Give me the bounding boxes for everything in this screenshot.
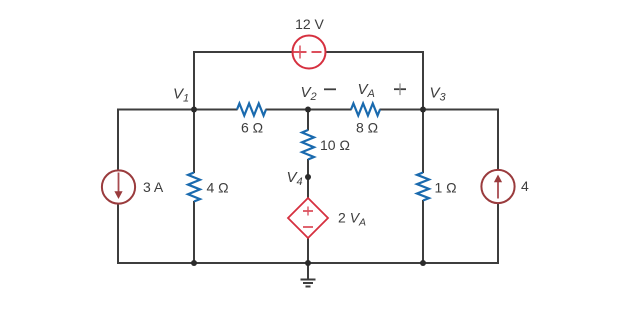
svg-text:4: 4 bbox=[521, 178, 529, 194]
node V3 dot bbox=[420, 107, 426, 113]
wire: center column 10-ohm to diamond bbox=[307, 159, 309, 199]
wire: V3 column top segment bbox=[422, 51, 424, 110]
svg-text:3 A: 3 A bbox=[143, 179, 164, 195]
wire: main row left (left rail corner to 6-ohm) bbox=[118, 109, 238, 111]
svg-text:6 Ω: 6 Ω bbox=[241, 120, 263, 136]
node: bottom rail ground junction bbox=[305, 260, 311, 266]
node V1 dot bbox=[191, 107, 197, 113]
resistor 8 ohm bbox=[351, 104, 380, 116]
svg-text:V3: V3 bbox=[430, 85, 447, 104]
resistor 6 ohm bbox=[237, 104, 266, 116]
wire: top rail from V1 to V3 bbox=[194, 51, 423, 53]
wire: V3 column lower segment bbox=[422, 200, 424, 263]
wire: left rail vertical bbox=[117, 109, 119, 265]
wire: V1 column top segment bbox=[193, 51, 195, 110]
resistor 1 ohm bbox=[417, 173, 429, 201]
svg-text:1 Ω: 1 Ω bbox=[435, 180, 457, 196]
current source 4 (circle, up arrow) bbox=[481, 170, 514, 203]
wire: center column V2 to 10-ohm bbox=[307, 110, 309, 131]
svg-text:4 Ω: 4 Ω bbox=[207, 180, 229, 196]
wire: right rail vertical bbox=[497, 109, 499, 265]
svg-text:8 Ω: 8 Ω bbox=[356, 120, 378, 136]
wire: V3 column upper segment bbox=[422, 110, 424, 174]
wire: V1 column lower segment bbox=[193, 201, 195, 263]
node: bottom rail at V3 bbox=[420, 260, 426, 266]
node V2 dot bbox=[305, 107, 311, 113]
svg-text:V4: V4 bbox=[287, 169, 303, 188]
resistor 10 ohm bbox=[302, 130, 314, 160]
voltage source 12 V (circle with + -) bbox=[293, 36, 326, 69]
svg-text:V1: V1 bbox=[173, 86, 189, 105]
dependent source 2 VA (diamond with + -) bbox=[288, 198, 328, 238]
node: bottom rail at V1 bbox=[191, 260, 197, 266]
wire: bottom rail bbox=[118, 262, 498, 264]
wire: V1 column upper segment bbox=[193, 110, 195, 174]
wire: center column diamond to bottom rail bbox=[307, 237, 309, 263]
polarity minus of VA bbox=[324, 88, 336, 90]
wire: main row right (8-ohm to right rail corner) bbox=[380, 109, 499, 111]
polarity plus of VA bbox=[394, 83, 406, 95]
resistor 4 ohm bbox=[188, 173, 200, 202]
svg-text:VA: VA bbox=[358, 81, 375, 100]
svg-text:12 V: 12 V bbox=[295, 16, 324, 32]
node V4 dot bbox=[305, 174, 311, 180]
ground bbox=[301, 263, 316, 287]
svg-text:V2: V2 bbox=[301, 84, 317, 103]
wire: main row middle (6-ohm to 8-ohm) bbox=[266, 109, 352, 111]
current source 3 A (circle, down arrow) bbox=[102, 170, 135, 203]
svg-text:2 VA: 2 VA bbox=[338, 210, 366, 229]
svg-text:10 Ω: 10 Ω bbox=[320, 137, 350, 153]
